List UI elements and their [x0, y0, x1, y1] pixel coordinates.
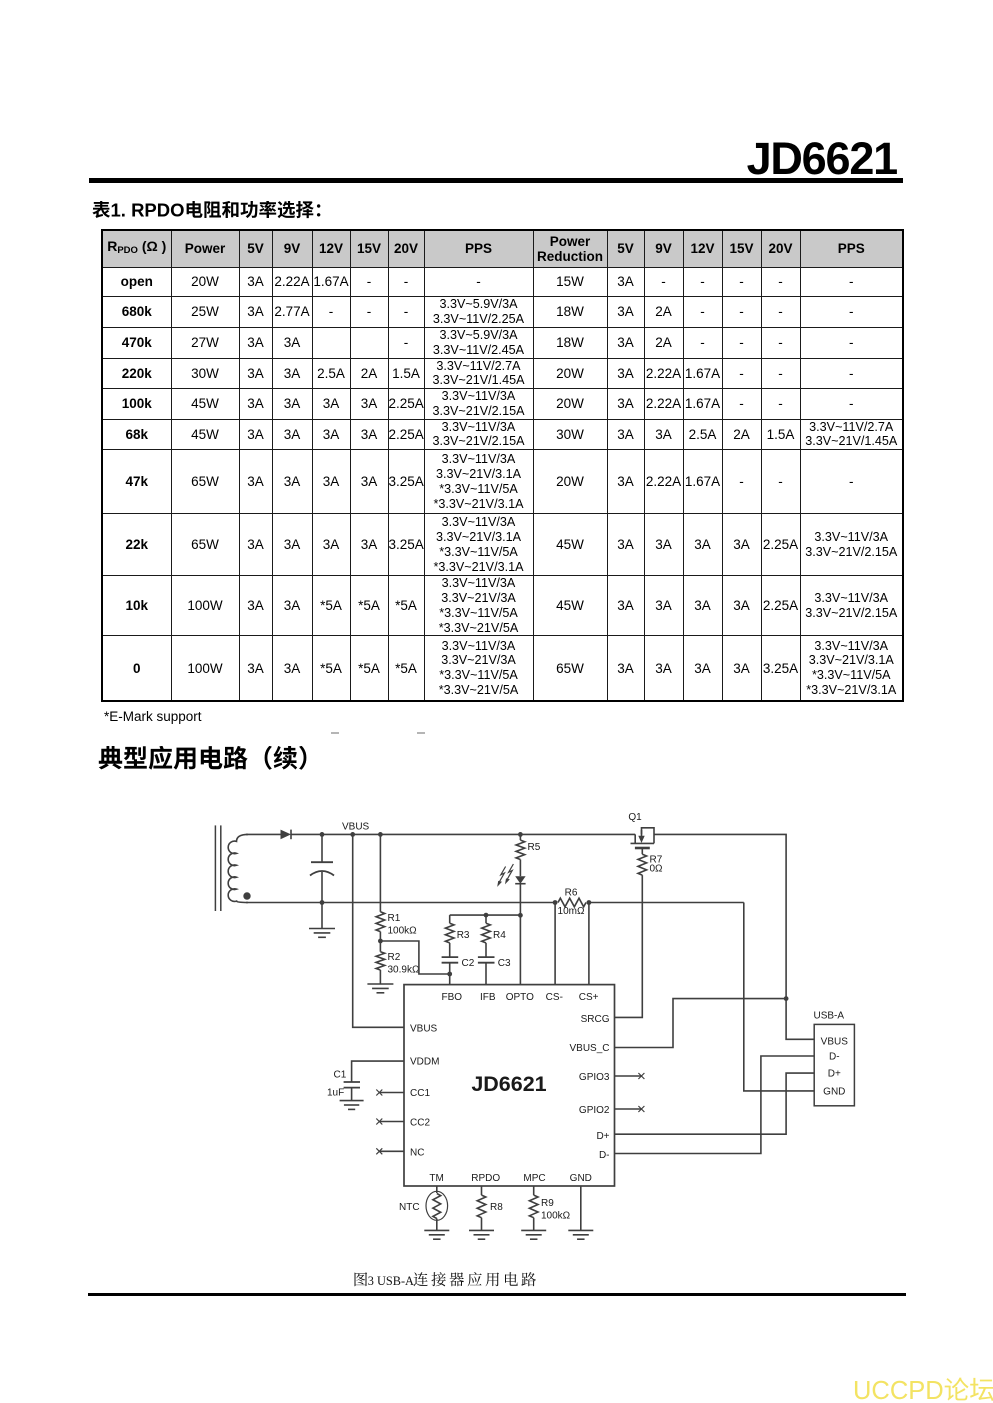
ground below GND pin — [568, 1230, 593, 1239]
wire VDDM to C1 — [352, 1061, 404, 1082]
capacitor C1 1uF — [327, 1070, 360, 1101]
svg-text:IFB: IFB — [480, 992, 496, 1003]
no-connect CC1 — [376, 1090, 404, 1096]
resistor R5 — [516, 834, 541, 876]
junction bulk cap / bottom rail — [320, 900, 325, 905]
wire R7 to SRCG — [615, 875, 643, 1017]
wire to USB VBUS — [786, 999, 814, 1040]
junction R4 top — [484, 913, 489, 918]
pin GPIO2 — [579, 1105, 610, 1116]
svg-text:FBO: FBO — [442, 992, 463, 1003]
svg-text:OPTO: OPTO — [506, 992, 534, 1003]
pin CS- — [546, 992, 563, 1003]
resistor R6 — [558, 888, 586, 918]
resistor R4 — [482, 915, 507, 957]
junction CS- sense — [553, 900, 558, 905]
resistor R3 — [445, 915, 470, 957]
top rule — [89, 178, 903, 183]
svg-text:1uF: 1uF — [327, 1088, 344, 1099]
pin VBUS — [410, 1024, 438, 1035]
figure caption 图3 — [352, 1270, 542, 1292]
svg-text:NTC: NTC — [399, 1202, 420, 1213]
pin D- — [599, 1150, 610, 1161]
junction R1/R2 — [378, 939, 383, 944]
watermark UCCPD论坛 — [853, 1376, 993, 1403]
svg-text:GPIO3: GPIO3 — [579, 1072, 610, 1083]
resistor R8 — [477, 1186, 503, 1230]
wire OPTO pin — [519, 884, 521, 985]
svg-text:D+: D+ — [828, 1069, 841, 1080]
no-connect CC2 — [376, 1119, 404, 1125]
ground below R8 — [469, 1230, 494, 1239]
svg-text:R8: R8 — [490, 1202, 503, 1213]
pin OPTO — [506, 992, 534, 1003]
svg-text:VBUS: VBUS — [342, 822, 370, 833]
wire bottom rail right — [589, 902, 744, 904]
node VBUS — [342, 822, 370, 833]
junction VBUS to R1 — [378, 832, 383, 837]
svg-text:C2: C2 — [462, 958, 475, 969]
wire D- to USB — [615, 1056, 815, 1154]
pin RPDO — [471, 1173, 500, 1184]
no-connect GPIO2 — [615, 1106, 645, 1112]
svg-text:GPIO2: GPIO2 — [579, 1105, 610, 1116]
svg-text:VBUS_C: VBUS_C — [569, 1043, 609, 1054]
svg-text:C3: C3 — [498, 958, 511, 969]
junction VBUS to R5 — [518, 832, 523, 837]
transistor Q1 — [628, 812, 654, 854]
svg-text:D+: D+ — [596, 1131, 609, 1142]
svg-text:30.9kΩ: 30.9kΩ — [388, 965, 420, 976]
pin MPC — [523, 1173, 545, 1184]
svg-text:R5: R5 — [528, 842, 541, 853]
connector USB-A — [814, 1011, 855, 1106]
svg-text:D-: D- — [599, 1150, 610, 1161]
title JD6621 — [0, 136, 897, 181]
svg-text:SRCG: SRCG — [581, 1014, 610, 1025]
svg-text:100kΩ: 100kΩ — [388, 926, 418, 937]
svg-text:GND: GND — [570, 1173, 592, 1184]
pin GPIO3 — [579, 1072, 610, 1083]
IC U1 JD6621 — [404, 985, 615, 1186]
svg-text:0Ω: 0Ω — [650, 864, 664, 875]
heading 典型应用电路(续) — [98, 746, 333, 776]
note E-Mark support — [104, 709, 202, 724]
svg-text:CS+: CS+ — [579, 992, 599, 1003]
svg-text:CS-: CS- — [546, 992, 563, 1003]
pin GND — [570, 1173, 592, 1184]
pin NC — [410, 1148, 424, 1159]
junction VBUS_C node — [784, 996, 789, 1001]
svg-text:JD6621: JD6621 — [471, 1072, 546, 1096]
svg-text:TM: TM — [429, 1173, 443, 1184]
junction VBUS to U1 — [350, 832, 355, 837]
wire R3/R4 top bus — [450, 914, 521, 916]
junction opto/compensation — [518, 913, 523, 918]
faint marks — [331, 732, 339, 734]
svg-text:CC1: CC1 — [410, 1088, 430, 1099]
wire GND pin — [580, 1186, 582, 1230]
wire Q1 source to VBUS out — [654, 834, 786, 998]
svg-text:C1: C1 — [334, 1070, 347, 1081]
transformer T1 — [215, 825, 250, 911]
wire divider to FBO — [380, 941, 449, 974]
svg-text:RPDO: RPDO — [471, 1173, 500, 1184]
resistor R9 100k — [529, 1186, 570, 1230]
junction FBO node — [447, 972, 452, 977]
svg-text:R9: R9 — [541, 1198, 554, 1209]
svg-text:R3: R3 — [457, 930, 470, 941]
ground below R9 — [521, 1230, 546, 1239]
svg-text:CC2: CC2 — [410, 1118, 430, 1129]
wire CS+ to U1 — [588, 903, 590, 985]
pin CC1 — [410, 1088, 430, 1099]
resistor R1 100k — [376, 834, 417, 941]
capacitor C3 — [478, 957, 511, 985]
ground below bulk cap — [309, 903, 335, 938]
svg-text:10mΩ: 10mΩ — [558, 906, 585, 917]
no-connect GPIO3 — [615, 1073, 645, 1079]
svg-text:NC: NC — [410, 1148, 424, 1159]
svg-text:R2: R2 — [388, 952, 401, 963]
svg-text:VBUS: VBUS — [821, 1037, 849, 1048]
svg-text:D-: D- — [829, 1052, 840, 1063]
junction VBUS/C bulk — [320, 832, 325, 837]
opto LED D2 — [497, 864, 525, 887]
pin IFB — [480, 992, 496, 1003]
resistor R7 0ohm — [638, 854, 663, 875]
pin D+ — [596, 1131, 609, 1142]
capacitor C2 — [442, 957, 475, 974]
svg-text:VDDM: VDDM — [410, 1057, 439, 1068]
no-connect NC — [376, 1148, 404, 1154]
pin TM — [429, 1173, 443, 1184]
wire VBUS_C from U1 — [615, 999, 787, 1048]
pin CC2 — [410, 1118, 430, 1129]
svg-text:R4: R4 — [493, 930, 506, 941]
svg-text:USB-A: USB-A — [814, 1011, 845, 1022]
pin SRCG — [581, 1014, 610, 1025]
wire VBUS to U1 VBUS pin — [353, 834, 404, 1027]
pin FBO — [442, 992, 463, 1003]
thermistor NTC — [399, 1186, 448, 1230]
pin VBUS_C — [569, 1043, 609, 1054]
bottom rule — [88, 1293, 906, 1296]
svg-text:VBUS: VBUS — [410, 1024, 438, 1035]
ground below R2 — [367, 984, 393, 993]
svg-text:UCCPD: UCCPD — [853, 1377, 944, 1403]
pin VDDM — [410, 1057, 439, 1068]
capacitor C bulk — [310, 834, 334, 902]
svg-text:3 USB-A: 3 USB-A — [368, 1274, 414, 1288]
svg-text:R1: R1 — [388, 913, 401, 924]
wire GND to USB — [744, 903, 814, 1091]
wire FBO pin — [449, 974, 451, 985]
wire transformer to diode — [246, 833, 281, 835]
ground below NTC — [424, 1230, 449, 1239]
svg-text:GND: GND — [823, 1086, 845, 1097]
wire D+ to USB — [615, 1073, 815, 1134]
wire bottom rail left — [246, 902, 555, 904]
ground below C1 — [340, 1101, 364, 1110]
table caption 表1 — [92, 201, 342, 223]
svg-text:R6: R6 — [565, 888, 578, 899]
diode D1 — [281, 830, 292, 840]
wire VBUS rail — [291, 833, 635, 835]
junction CS+ sense — [587, 900, 592, 905]
resistor R2 30.9k — [376, 941, 420, 984]
svg-text:Q1: Q1 — [628, 812, 642, 823]
svg-text:100kΩ: 100kΩ — [541, 1211, 571, 1222]
svg-text:MPC: MPC — [523, 1173, 545, 1184]
table 1 RPDO power selection — [101, 229, 904, 702]
wire CS- to U1 — [554, 903, 556, 985]
pin CS+ — [579, 992, 599, 1003]
